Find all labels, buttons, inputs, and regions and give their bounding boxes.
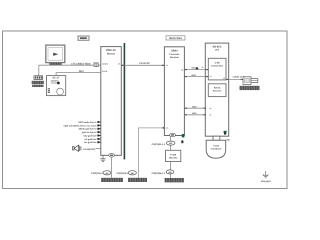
svg-text:C-80: C-80 [215, 61, 221, 64]
svg-text:CX-00 W7: CX-00 W7 [139, 62, 150, 65]
long wire to SRA0 lower input [139, 128, 164, 178]
wire S1 SRA0 to C box [184, 69, 208, 71]
svg-text:Manual: Manual [107, 52, 115, 55]
svg-text:CX(P)104-1 1: CX(P)104-1 1 [152, 172, 166, 175]
PRC-12 radio set box [101, 47, 122, 156]
svg-text:1TX CABLE W101: 1TX CABLE W101 [71, 62, 91, 65]
cable tag W8 [166, 170, 174, 174]
wire monitor cable [39, 64, 101, 66]
teal cable line [123, 43, 125, 159]
PRC-12 left input pins [64, 121, 97, 144]
wire PRC-12 to SRA0 [121, 64, 164, 66]
wire S3 [184, 107, 206, 109]
wire AC-17 to PRC-12 [56, 73, 101, 76]
AN unit outer box [205, 43, 228, 136]
svg-text:W12: W12 [79, 70, 84, 73]
svg-text:J1: J1 [210, 75, 212, 78]
ship ground [263, 171, 268, 178]
right connector label bar [240, 86, 260, 90]
cable tag W9 [166, 141, 175, 145]
left connector J1 [34, 76, 43, 80]
svg-text:J2: J2 [118, 63, 120, 66]
svg-text:speaker: speaker [51, 79, 59, 82]
inline connector [94, 63, 98, 67]
svg-text:ptt gnd line: ptt gnd line [85, 138, 98, 141]
wire SRA0 down [170, 137, 172, 151]
speaker icon [73, 145, 81, 151]
monitor label bar [49, 63, 61, 65]
monitor IP-xx display [46, 45, 65, 63]
svg-text:AUDIO: AUDIO [102, 63, 109, 66]
svg-text:rcv gnd line: rcv gnd line [84, 141, 97, 144]
svg-text:SPKR: SPKR [102, 70, 108, 73]
svg-text:key gnd line: key gnd line [84, 134, 97, 137]
svg-text:J2: J2 [223, 77, 225, 80]
svg-text:P-100: P-100 [170, 153, 177, 156]
green connector SRA0 [182, 134, 185, 137]
svg-text:J1: J1 [166, 64, 168, 67]
svg-text:J3: J3 [201, 66, 203, 69]
C-XX controller inner box [208, 58, 226, 80]
wire P box down [170, 162, 172, 179]
svg-text:LS-454/FR2: LS-454/FR2 [83, 148, 96, 151]
svg-text:Mod Sw: Mod Sw [169, 157, 178, 160]
SRA0 facsimile receiver box [164, 47, 184, 136]
svg-text:AN-80C: AN-80C [212, 46, 221, 49]
wire C box to connector [226, 78, 243, 80]
svg-text:CX(P)102-1: CX(P)102-1 [116, 172, 128, 175]
SRA0 bottom connector bubble [170, 133, 176, 136]
svg-text:CX(P)101-1: CX(P)101-1 [91, 172, 103, 175]
cable tag W4 [103, 171, 111, 175]
svg-text:J2: J2 [181, 68, 183, 71]
svg-text:Transducer: Transducer [210, 147, 221, 150]
svg-text:Unit: Unit [215, 49, 220, 52]
cable tag W6 [128, 171, 136, 175]
wire speaker to PRC-12 [96, 148, 101, 150]
svg-text:ship gnd: ship gnd [261, 180, 271, 183]
P-XX mode switch box [166, 150, 181, 161]
border frame [3, 31, 288, 189]
wire down from PRC-12 [110, 157, 112, 178]
terminal bar 1 [101, 178, 123, 182]
svg-text:Control Box: Control Box [211, 64, 224, 67]
svg-text:Receiver: Receiver [170, 56, 179, 59]
svg-text:SRA0: SRA0 [171, 50, 178, 53]
svg-text:Facsimile: Facsimile [169, 53, 180, 56]
svg-text:CX(P)103-1 1: CX(P)103-1 1 [152, 143, 166, 146]
svg-text:Receiver: Receiver [213, 89, 222, 92]
svg-text:28vdc gnd line in: 28vdc gnd line in [79, 128, 97, 131]
right connector plug [243, 77, 258, 85]
terminal bar 2 [128, 178, 147, 182]
svg-text:high volt 28vdc line to rcv co: high volt 28vdc line to rcv conn [64, 124, 97, 127]
ground under PRC-12 [100, 155, 106, 161]
wire S4 [184, 114, 206, 116]
svg-text:T-102: T-102 [213, 144, 219, 147]
transducer neck [213, 136, 220, 140]
svg-text:Strob Wire: Strob Wire [169, 37, 183, 40]
svg-text:XMT audio line in: XMT audio line in [78, 121, 97, 124]
AC-17 loudspeaker box [47, 76, 66, 96]
connector bubble on PRC-12 bottom [109, 154, 115, 158]
wire end pin ticks [122, 65, 244, 115]
left connector labels [32, 81, 44, 84]
svg-text:J5: J5 [209, 114, 211, 117]
wire S2 [184, 76, 208, 78]
terminal bar 3 [165, 178, 185, 182]
svg-text:AC-17: AC-17 [52, 77, 60, 80]
label box Timing [78, 36, 89, 40]
left riser wire [38, 65, 40, 76]
svg-text:PRC-12: PRC-12 [106, 49, 116, 52]
transducer T-XX bell [206, 140, 226, 158]
receiver inner box [208, 84, 226, 97]
svg-text:RA-34: RA-34 [214, 86, 221, 89]
svg-text:gnd ret line in: gnd ret line in [82, 131, 97, 134]
label box Strob Wire [166, 36, 185, 40]
green connector AN unit [224, 131, 227, 133]
